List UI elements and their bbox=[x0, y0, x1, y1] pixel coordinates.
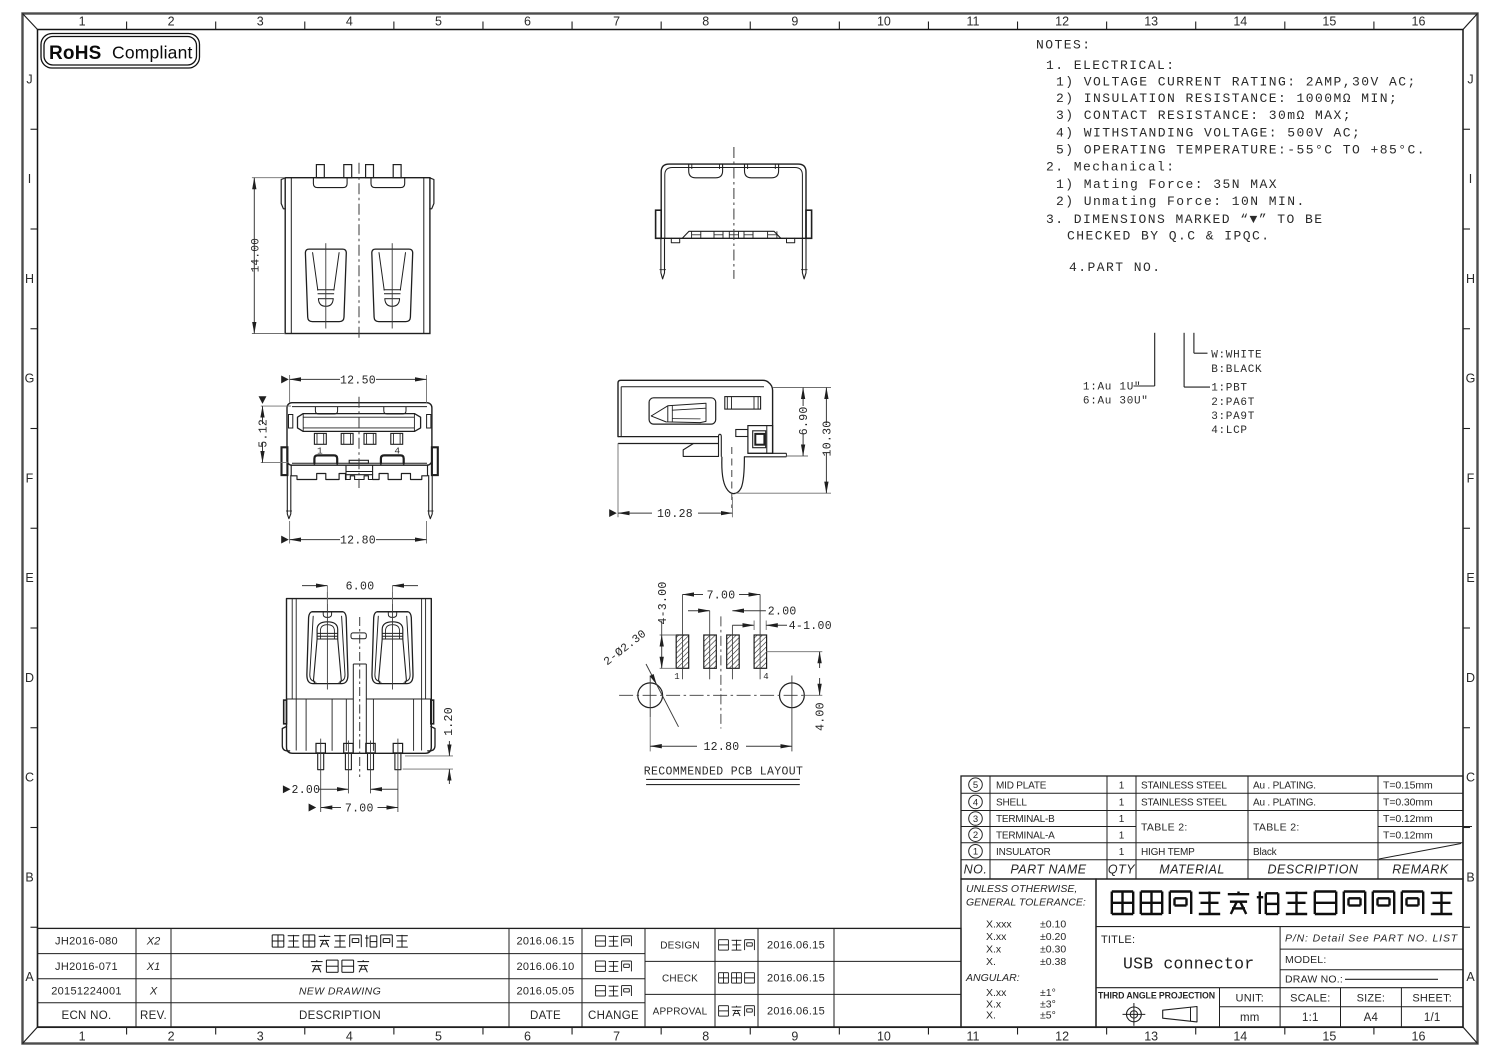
projection cell bbox=[1219, 988, 1221, 1027]
svg-text:ECN NO.: ECN NO. bbox=[61, 1010, 111, 1022]
svg-text:1:1: 1:1 bbox=[1302, 1012, 1319, 1024]
bottom view ribs bbox=[305, 699, 307, 751]
front view side latch windows bbox=[289, 415, 293, 429]
svg-text:11: 11 bbox=[966, 1030, 979, 1044]
svg-text:±0.38: ±0.38 bbox=[1040, 956, 1066, 968]
svg-text:2016.05.05: 2016.05.05 bbox=[516, 986, 574, 998]
svg-text:12: 12 bbox=[1055, 1030, 1069, 1044]
svg-text:6.90: 6.90 bbox=[798, 406, 811, 435]
svg-text:SIZE:: SIZE: bbox=[1357, 993, 1386, 1005]
company name (CJK approximated) bbox=[1112, 892, 1133, 915]
projection target symbol bbox=[1127, 1007, 1142, 1022]
front view top dimples bbox=[315, 407, 337, 414]
svg-text:14: 14 bbox=[1233, 1030, 1247, 1044]
back view: rear of connector bbox=[656, 147, 812, 279]
recommended pcb layout view bbox=[602, 581, 832, 784]
dimension 2.00 bbox=[283, 785, 291, 793]
bottom view right latch bbox=[372, 612, 413, 684]
front view: receptacle opening bbox=[258, 374, 438, 547]
svg-text:B: B bbox=[1466, 870, 1474, 884]
front view centerline bbox=[358, 397, 360, 488]
svg-text:T=0.30mm: T=0.30mm bbox=[1383, 797, 1433, 809]
svg-text:9: 9 bbox=[791, 15, 798, 29]
projection cone symbol bbox=[1163, 1007, 1197, 1022]
svg-text:6:Au 30U″: 6:Au 30U″ bbox=[1083, 395, 1149, 407]
dimension 10.30 bbox=[808, 387, 831, 389]
side view front hook leg bbox=[722, 457, 745, 494]
svg-text:DATE: DATE bbox=[530, 1010, 561, 1022]
top view left contact bbox=[305, 249, 346, 322]
svg-text:REV.: REV. bbox=[140, 1010, 167, 1022]
svg-text:C: C bbox=[25, 771, 34, 785]
svg-text:Au . PLATING.: Au . PLATING. bbox=[1253, 780, 1316, 791]
svg-text:2: 2 bbox=[168, 15, 175, 29]
front view tongue bbox=[298, 414, 421, 432]
svg-text:1: 1 bbox=[79, 1030, 86, 1044]
back view legs bbox=[661, 238, 665, 279]
svg-text:13: 13 bbox=[1144, 1030, 1158, 1044]
svg-text:DESCRIPTION: DESCRIPTION bbox=[299, 1010, 381, 1022]
svg-text:A: A bbox=[1466, 970, 1475, 984]
parts rows bbox=[969, 778, 983, 792]
svg-text:2:PA6T: 2:PA6T bbox=[1211, 397, 1255, 409]
svg-text:X.: X. bbox=[986, 956, 996, 968]
svg-text:W:WHITE: W:WHITE bbox=[1211, 350, 1262, 362]
svg-text:7: 7 bbox=[613, 15, 620, 29]
bottom view centerline bbox=[359, 617, 361, 777]
svg-text:2016.06.15: 2016.06.15 bbox=[767, 940, 825, 952]
svg-text:±1°: ±1° bbox=[1040, 987, 1056, 999]
svg-text:UNLESS OTHERWISE,: UNLESS OTHERWISE, bbox=[966, 883, 1077, 895]
dimension 4-1.00 (pcb) bbox=[732, 624, 754, 626]
svg-text:INSULATOR: INSULATOR bbox=[996, 847, 1051, 858]
bottom view: connector underside bbox=[282, 581, 456, 816]
dimension 12.80 bbox=[281, 536, 289, 544]
svg-text:16: 16 bbox=[1412, 1030, 1426, 1044]
svg-text:GENERAL TOLERANCE:: GENERAL TOLERANCE: bbox=[966, 897, 1086, 909]
top view: connector seen from mating face top bbox=[250, 163, 434, 339]
front view bottom slots bbox=[314, 455, 337, 463]
bottom view left latch bbox=[307, 612, 348, 684]
svg-text:2) Unmating Force: 10N MIN.: 2) Unmating Force: 10N MIN. bbox=[1056, 194, 1306, 209]
top view right contact bbox=[372, 249, 413, 322]
svg-text:DESIGN: DESIGN bbox=[660, 941, 700, 952]
svg-text:2.00: 2.00 bbox=[768, 606, 797, 619]
svg-text:B: B bbox=[25, 870, 33, 884]
svg-text:5.12: 5.12 bbox=[258, 419, 271, 448]
svg-text:TABLE 2:: TABLE 2: bbox=[1141, 822, 1188, 834]
side view rear slot bbox=[725, 397, 761, 410]
svg-text:CHECK: CHECK bbox=[662, 974, 698, 985]
front view legs bbox=[287, 475, 291, 518]
svg-text:3: 3 bbox=[257, 15, 264, 29]
svg-text:2016.06.15: 2016.06.15 bbox=[767, 973, 825, 985]
svg-text:H: H bbox=[1466, 272, 1475, 286]
svg-text:THIRD ANGLE PROJECTION: THIRD ANGLE PROJECTION bbox=[1098, 990, 1215, 1001]
svg-text:A: A bbox=[25, 970, 34, 984]
bottom view body bbox=[287, 599, 432, 754]
svg-text:12.80: 12.80 bbox=[340, 535, 376, 548]
svg-text:14.00: 14.00 bbox=[250, 238, 262, 273]
svg-text:I: I bbox=[1469, 172, 1472, 186]
svg-text:2. Mechanical:: 2. Mechanical: bbox=[1046, 160, 1176, 175]
svg-text:X.xx: X.xx bbox=[986, 931, 1007, 943]
dimension 10.28 bbox=[609, 509, 617, 517]
pcb view vertical centerline bbox=[720, 616, 722, 728]
svg-text:±5°: ±5° bbox=[1040, 1010, 1056, 1022]
svg-text:8: 8 bbox=[702, 15, 709, 29]
side view center post bbox=[719, 434, 722, 456]
dimension 4.00 (pcb) bbox=[766, 651, 822, 653]
svg-text:3. DIMENSIONS MARKED “▼” TO BE: 3. DIMENSIONS MARKED “▼” TO BE bbox=[1046, 212, 1324, 227]
dimension 2.00 (pcb) bbox=[688, 610, 710, 612]
dimension 5.12 (checked) bbox=[259, 396, 267, 404]
svg-text:DRAW NO.:: DRAW NO.: bbox=[1285, 974, 1343, 986]
svg-text:CHECKED BY Q.C & IPQC.: CHECKED BY Q.C & IPQC. bbox=[1067, 229, 1271, 244]
svg-text:MODEL:: MODEL: bbox=[1285, 954, 1326, 966]
svg-text:3: 3 bbox=[973, 814, 978, 825]
svg-text:2016.06.15: 2016.06.15 bbox=[767, 1006, 825, 1018]
svg-text:±0.20: ±0.20 bbox=[1040, 931, 1066, 943]
svg-text:X2: X2 bbox=[146, 936, 160, 948]
svg-text:J: J bbox=[26, 72, 32, 86]
svg-text:12.80: 12.80 bbox=[703, 741, 739, 754]
svg-text:1:Au 1U″: 1:Au 1U″ bbox=[1083, 381, 1141, 393]
svg-text:X.xx: X.xx bbox=[986, 987, 1007, 999]
svg-text:±0.10: ±0.10 bbox=[1040, 919, 1066, 931]
svg-text:4: 4 bbox=[346, 1030, 353, 1044]
svg-text:JH2016-080: JH2016-080 bbox=[55, 936, 118, 948]
revision table bbox=[38, 928, 962, 1027]
svg-text:RoHS: RoHS bbox=[49, 43, 102, 64]
svg-text:F: F bbox=[1467, 471, 1475, 485]
back view bottom teeth platform bbox=[682, 231, 781, 238]
svg-text:5: 5 bbox=[435, 15, 442, 29]
front view lower body with notched edge bbox=[292, 462, 427, 464]
svg-text:4) WITHSTANDING VOLTAGE: 500V: 4) WITHSTANDING VOLTAGE: 500V AC; bbox=[1056, 126, 1361, 141]
side view bottom shell lines bbox=[618, 436, 719, 438]
svg-text:5: 5 bbox=[435, 1030, 442, 1044]
svg-text:SHEET:: SHEET: bbox=[1412, 993, 1452, 1005]
front view center small tab bbox=[349, 460, 368, 463]
svg-text:SCALE:: SCALE: bbox=[1290, 993, 1330, 1005]
svg-text:1:PBT: 1:PBT bbox=[1211, 383, 1248, 395]
svg-text:6.00: 6.00 bbox=[346, 581, 375, 594]
svg-text:TERMINAL-B: TERMINAL-B bbox=[996, 814, 1055, 825]
tolerance block bbox=[961, 879, 1096, 1027]
side view pcb wedge bbox=[683, 444, 718, 457]
svg-text:mm: mm bbox=[1240, 1012, 1260, 1024]
svg-text:1.20: 1.20 bbox=[443, 707, 456, 736]
pcb mount holes bbox=[638, 683, 663, 708]
svg-text:QTY: QTY bbox=[1108, 863, 1136, 877]
svg-text:X1: X1 bbox=[146, 961, 160, 973]
svg-text:3) CONTACT RESISTANCE: 30mΩ MA: 3) CONTACT RESISTANCE: 30mΩ MAX; bbox=[1056, 108, 1352, 123]
svg-text:G: G bbox=[25, 372, 35, 386]
side view terminal block bbox=[748, 426, 773, 454]
svg-text:1) Mating Force: 35N MAX: 1) Mating Force: 35N MAX bbox=[1056, 177, 1278, 192]
dimension 7.00 bbox=[309, 804, 317, 812]
svg-text:NO.: NO. bbox=[964, 863, 988, 877]
svg-text:1: 1 bbox=[674, 672, 679, 682]
svg-text:TERMINAL-A: TERMINAL-A bbox=[996, 830, 1055, 841]
svg-text:USB connector: USB connector bbox=[1123, 955, 1254, 974]
svg-text:15: 15 bbox=[1322, 1030, 1336, 1044]
svg-text:JH2016-071: JH2016-071 bbox=[55, 961, 118, 973]
svg-text:SHELL: SHELL bbox=[996, 798, 1027, 809]
pcb pads hatched bbox=[676, 635, 689, 668]
svg-text:1: 1 bbox=[973, 847, 978, 858]
dimension 12.80 (pcb) bbox=[649, 717, 651, 751]
svg-text:Au . PLATING.: Au . PLATING. bbox=[1253, 798, 1316, 809]
svg-text:10.28: 10.28 bbox=[657, 508, 693, 521]
svg-text:5: 5 bbox=[973, 780, 978, 791]
svg-text:I: I bbox=[28, 172, 31, 186]
svg-text:NEW DRAWING: NEW DRAWING bbox=[299, 986, 381, 998]
svg-text:D: D bbox=[1466, 671, 1475, 685]
svg-text:14: 14 bbox=[1233, 15, 1247, 29]
svg-text:X.x: X.x bbox=[986, 944, 1002, 956]
top view slots under edge bbox=[313, 178, 347, 187]
svg-text:10: 10 bbox=[877, 1030, 891, 1044]
svg-text:APPROVAL: APPROVAL bbox=[653, 1007, 708, 1018]
svg-text:2016.06.15: 2016.06.15 bbox=[516, 936, 574, 948]
svg-text:DESCRIPTION: DESCRIPTION bbox=[1268, 863, 1359, 877]
svg-text:±0.30: ±0.30 bbox=[1040, 944, 1066, 956]
svg-text:20151224001: 20151224001 bbox=[51, 986, 122, 998]
dimension 12.50 bbox=[281, 375, 289, 383]
side view: connector profile bbox=[609, 380, 834, 521]
svg-text:4-3.00: 4-3.00 bbox=[657, 581, 670, 624]
side view base plate bbox=[748, 452, 787, 454]
svg-text:P/N: Detail See PART NO. LIST: P/N: Detail See PART NO. LIST bbox=[1285, 933, 1459, 945]
svg-text:12: 12 bbox=[1055, 15, 1069, 29]
side view shell top/left bbox=[618, 380, 773, 453]
svg-text:UNIT:: UNIT: bbox=[1236, 993, 1265, 1005]
bottom view center slot bbox=[351, 633, 366, 639]
svg-text:MID PLATE: MID PLATE bbox=[996, 780, 1047, 791]
svg-text:6: 6 bbox=[524, 15, 531, 29]
svg-text:2.00: 2.00 bbox=[292, 784, 321, 797]
title block bbox=[1096, 879, 1463, 1027]
front view shell outline bbox=[287, 403, 432, 466]
svg-text:X.: X. bbox=[986, 1010, 996, 1022]
svg-text:5) OPERATING TEMPERATURE:-55°C: 5) OPERATING TEMPERATURE:-55°C TO +85°C. bbox=[1056, 143, 1426, 158]
back view top slots bbox=[689, 164, 723, 178]
svg-text:1: 1 bbox=[1119, 830, 1125, 841]
svg-text:9: 9 bbox=[791, 1030, 798, 1044]
front view center tab bbox=[346, 466, 373, 475]
bottom view step line bbox=[287, 698, 354, 700]
dimension 7.00 (pcb) bbox=[683, 594, 704, 596]
svg-text:CHANGE: CHANGE bbox=[588, 1010, 639, 1022]
svg-text:X.xxx: X.xxx bbox=[986, 919, 1012, 931]
svg-text:4-1.00: 4-1.00 bbox=[789, 620, 832, 633]
svg-text:1. ELECTRICAL:: 1. ELECTRICAL: bbox=[1046, 58, 1176, 73]
svg-text:4: 4 bbox=[346, 15, 353, 29]
back view under-tabs bbox=[671, 238, 679, 242]
svg-text:STAINLESS STEEL: STAINLESS STEEL bbox=[1141, 798, 1227, 809]
svg-text:J: J bbox=[1467, 72, 1473, 86]
svg-text:8: 8 bbox=[702, 1030, 709, 1044]
svg-text:E: E bbox=[1466, 571, 1474, 585]
svg-text:12.50: 12.50 bbox=[340, 374, 376, 387]
svg-text:4.00: 4.00 bbox=[815, 702, 828, 731]
svg-text:2: 2 bbox=[168, 1030, 175, 1044]
svg-text:1: 1 bbox=[1119, 780, 1125, 791]
svg-text:4:LCP: 4:LCP bbox=[1211, 425, 1248, 437]
svg-text:16: 16 bbox=[1412, 15, 1426, 29]
svg-text:4: 4 bbox=[973, 797, 978, 808]
dimension 4-3.00 (pcb) bbox=[660, 634, 677, 636]
svg-text:Compliant: Compliant bbox=[112, 43, 193, 63]
svg-text:1) VOLTAGE CURRENT RATING: 2AM: 1) VOLTAGE CURRENT RATING: 2AMP,30V AC; bbox=[1056, 75, 1417, 90]
svg-text:6: 6 bbox=[524, 1030, 531, 1044]
svg-text:15: 15 bbox=[1322, 15, 1336, 29]
svg-text:7.00: 7.00 bbox=[707, 589, 736, 602]
RoHS Compliant logo bbox=[41, 34, 200, 69]
svg-text:Black: Black bbox=[1253, 847, 1278, 858]
svg-text:HIGH TEMP: HIGH TEMP bbox=[1141, 847, 1195, 858]
svg-text:STAINLESS STEEL: STAINLESS STEEL bbox=[1141, 780, 1227, 791]
svg-text:10.30: 10.30 bbox=[821, 420, 834, 456]
dimension 14.00 bbox=[252, 177, 285, 179]
svg-text:2: 2 bbox=[973, 830, 978, 841]
revision descriptions bbox=[272, 935, 284, 947]
parts list table bbox=[961, 776, 1472, 879]
svg-text:E: E bbox=[25, 571, 33, 585]
insulator remark slash bbox=[1379, 844, 1461, 860]
svg-text:7.00: 7.00 bbox=[345, 802, 374, 815]
svg-text:ANGULAR:: ANGULAR: bbox=[965, 972, 1020, 984]
bottom view side bumps bbox=[284, 700, 287, 724]
svg-text:B:BLACK: B:BLACK bbox=[1211, 364, 1262, 376]
svg-text:PART NAME: PART NAME bbox=[1010, 863, 1086, 877]
top view solder pins bbox=[316, 165, 324, 178]
part number legend bracket lines bbox=[1154, 333, 1156, 386]
side view latch slot bbox=[649, 398, 716, 424]
svg-text:1: 1 bbox=[1119, 847, 1125, 858]
dimension 1.20 bbox=[405, 755, 453, 757]
bottom view center channel bbox=[352, 664, 354, 753]
top view centerline bbox=[358, 163, 360, 339]
svg-text:13: 13 bbox=[1144, 15, 1158, 29]
svg-text:3:PA9T: 3:PA9T bbox=[1211, 411, 1255, 423]
bottom view pins bbox=[316, 743, 325, 753]
front view contact slots bbox=[314, 433, 326, 444]
svg-text:C: C bbox=[1466, 771, 1475, 785]
svg-text:3: 3 bbox=[257, 1030, 264, 1044]
label 2-dia2.30 bbox=[602, 628, 650, 669]
svg-text:1: 1 bbox=[79, 15, 86, 29]
svg-text:2) INSULATION RESISTANCE: 1000: 2) INSULATION RESISTANCE: 1000MΩ MIN; bbox=[1056, 91, 1398, 106]
side view hook hidden line bbox=[731, 447, 733, 508]
svg-text:NOTES:: NOTES: bbox=[1036, 38, 1092, 53]
back view shell bbox=[661, 164, 806, 238]
back view lugs bbox=[656, 210, 662, 238]
pin centerlines bbox=[320, 739, 322, 812]
svg-text:10: 10 bbox=[877, 15, 891, 29]
svg-text:TABLE 2:: TABLE 2: bbox=[1253, 822, 1300, 834]
dimension 6.00 bbox=[326, 586, 328, 604]
svg-text:REMARK: REMARK bbox=[1392, 863, 1449, 877]
svg-text:RECOMMENDED PCB LAYOUT: RECOMMENDED PCB LAYOUT bbox=[644, 766, 804, 779]
svg-text:TITLE:: TITLE: bbox=[1101, 934, 1135, 946]
svg-text:2016.06.10: 2016.06.10 bbox=[516, 961, 574, 973]
svg-text:H: H bbox=[25, 272, 34, 286]
svg-text:4: 4 bbox=[763, 672, 768, 682]
svg-text:X: X bbox=[149, 986, 158, 998]
pad centerlines bbox=[682, 595, 684, 680]
dimension 6.90 bbox=[773, 387, 808, 389]
svg-text:D: D bbox=[25, 671, 34, 685]
svg-text:7: 7 bbox=[613, 1030, 620, 1044]
svg-text:T=0.15mm: T=0.15mm bbox=[1383, 779, 1433, 791]
svg-text:T=0.12mm: T=0.12mm bbox=[1383, 813, 1433, 825]
svg-text:A4: A4 bbox=[1364, 1012, 1379, 1024]
svg-text:11: 11 bbox=[966, 15, 979, 29]
svg-text:F: F bbox=[26, 471, 34, 485]
top view right flange bbox=[430, 178, 434, 209]
back view centerline bbox=[733, 147, 735, 279]
corner diagonals bbox=[23, 14, 38, 30]
front view mounting lugs bbox=[282, 447, 288, 475]
svg-text:4.PART NO.: 4.PART NO. bbox=[1069, 260, 1162, 275]
svg-text:MATERIAL: MATERIAL bbox=[1159, 863, 1225, 877]
svg-text:1: 1 bbox=[1119, 798, 1125, 809]
svg-text:G: G bbox=[1466, 372, 1476, 386]
top view left flange bbox=[281, 178, 285, 209]
svg-text:T=0.12mm: T=0.12mm bbox=[1383, 829, 1433, 841]
svg-text:1/1: 1/1 bbox=[1424, 1012, 1441, 1024]
svg-text:1: 1 bbox=[1119, 814, 1125, 825]
